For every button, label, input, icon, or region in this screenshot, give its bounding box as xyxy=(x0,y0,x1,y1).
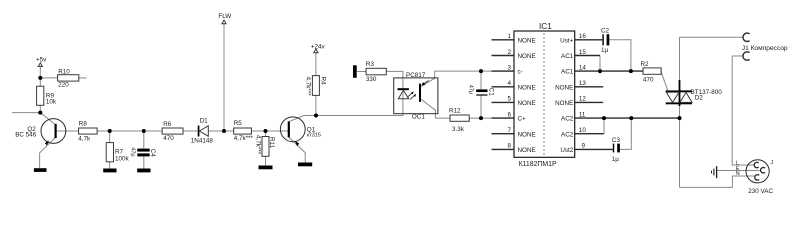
svg-text:NONE: NONE xyxy=(518,53,536,60)
svg-text:J: J xyxy=(770,160,773,166)
svg-text:11: 11 xyxy=(579,111,586,118)
svg-text:BC 546: BC 546 xyxy=(15,131,37,138)
svg-text:9: 9 xyxy=(582,143,586,150)
svg-text:1µ: 1µ xyxy=(601,47,609,54)
svg-text:220: 220 xyxy=(58,82,69,89)
svg-text:NONE: NONE xyxy=(518,131,536,138)
svg-text:Ust2: Ust2 xyxy=(560,147,573,154)
svg-text:NONE: NONE xyxy=(518,100,536,107)
svg-text:OC1: OC1 xyxy=(412,114,425,121)
svg-text:NONE: NONE xyxy=(518,147,536,154)
svg-text:7: 7 xyxy=(507,127,511,134)
svg-text:К1182ПМ1Р: К1182ПМ1Р xyxy=(519,161,557,168)
svg-text:C4: C4 xyxy=(149,149,156,158)
svg-text:R5: R5 xyxy=(234,120,243,127)
svg-text:+24v: +24v xyxy=(311,44,326,51)
svg-text:N: N xyxy=(736,171,740,177)
svg-text:C2: C2 xyxy=(601,27,610,34)
svg-text:4,7k***: 4,7k*** xyxy=(234,135,254,142)
svg-text:10k: 10k xyxy=(46,99,57,106)
svg-text:C3: C3 xyxy=(612,137,621,144)
svg-text:4: 4 xyxy=(507,80,511,87)
svg-text:AC1: AC1 xyxy=(561,69,574,76)
svg-text:C1: C1 xyxy=(488,88,495,97)
svg-text:NONE: NONE xyxy=(555,100,573,107)
svg-text:AC2: AC2 xyxy=(561,131,574,138)
svg-text:13: 13 xyxy=(579,80,587,87)
svg-text:12: 12 xyxy=(579,96,587,103)
svg-text:PC817: PC817 xyxy=(406,72,426,79)
svg-text:R8: R8 xyxy=(79,120,88,127)
svg-text:470: 470 xyxy=(643,77,654,84)
svg-text:кт315: кт315 xyxy=(307,133,321,139)
svg-text:NONE: NONE xyxy=(518,84,536,91)
svg-text:NONE: NONE xyxy=(518,37,536,44)
svg-text:J1 Компрессор: J1 Компрессор xyxy=(742,45,788,52)
svg-text:IC1: IC1 xyxy=(539,22,552,31)
svg-text:D2: D2 xyxy=(695,95,704,102)
svg-text:14: 14 xyxy=(579,64,587,71)
svg-text:15: 15 xyxy=(579,49,587,56)
svg-text:1µ: 1µ xyxy=(612,156,620,163)
svg-text:C+: C+ xyxy=(518,116,527,123)
svg-text:4,7k***: 4,7k*** xyxy=(305,77,312,97)
svg-text:230 VAC: 230 VAC xyxy=(748,188,773,195)
svg-text:470: 470 xyxy=(163,135,174,142)
svg-text:FLW: FLW xyxy=(218,13,231,20)
svg-text:R2: R2 xyxy=(641,61,650,68)
svg-text:R4: R4 xyxy=(320,77,327,86)
svg-text:AC1: AC1 xyxy=(561,53,574,60)
svg-text:1: 1 xyxy=(507,33,511,40)
svg-text:R10: R10 xyxy=(58,68,70,75)
svg-text:6: 6 xyxy=(507,111,511,118)
svg-text:1N4148: 1N4148 xyxy=(191,137,214,144)
svg-text:330: 330 xyxy=(366,76,377,83)
svg-text:R7: R7 xyxy=(115,148,124,155)
svg-text:R12: R12 xyxy=(449,108,461,115)
svg-text:D1: D1 xyxy=(200,117,209,124)
svg-text:3: 3 xyxy=(507,64,511,71)
svg-text:Ust+: Ust+ xyxy=(560,37,573,44)
svg-text:47µ: 47µ xyxy=(130,147,136,157)
svg-text:16: 16 xyxy=(579,33,587,40)
svg-text:47µ: 47µ xyxy=(467,85,473,95)
svg-text:8: 8 xyxy=(507,143,511,150)
svg-text:4,7k***: 4,7k*** xyxy=(255,135,262,155)
svg-text:c-: c- xyxy=(518,69,523,76)
svg-text:3.3k: 3.3k xyxy=(452,126,465,133)
svg-text:100k: 100k xyxy=(115,155,130,162)
svg-text:AC2: AC2 xyxy=(561,116,574,123)
svg-text:4,7k: 4,7k xyxy=(78,136,91,143)
svg-text:5: 5 xyxy=(507,96,511,103)
svg-text:R3: R3 xyxy=(366,61,375,68)
svg-text:R11: R11 xyxy=(268,137,275,149)
svg-text:10: 10 xyxy=(579,127,587,134)
svg-text:+5v: +5v xyxy=(36,57,47,64)
svg-text:NONE: NONE xyxy=(555,84,573,91)
svg-text:R6: R6 xyxy=(163,121,172,128)
svg-text:2: 2 xyxy=(507,49,511,56)
